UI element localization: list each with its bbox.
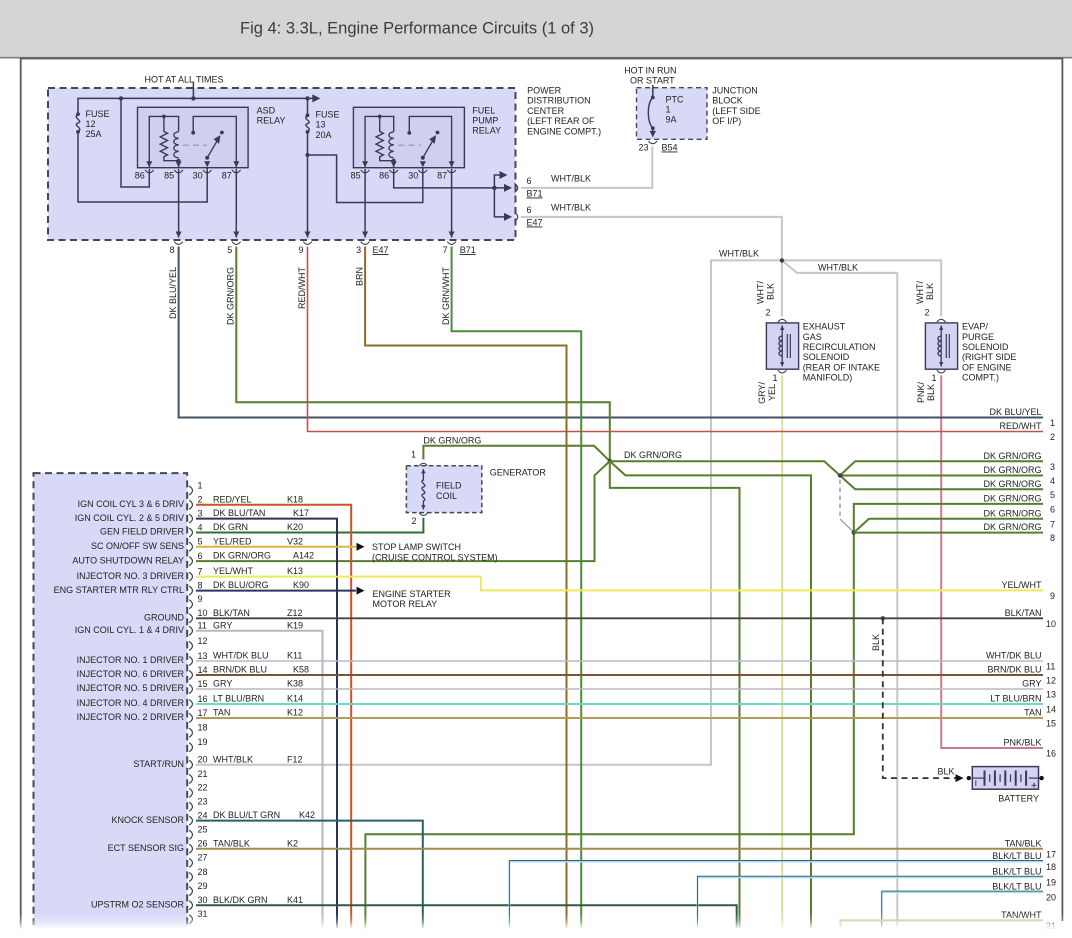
svg-text:30: 30	[193, 171, 203, 181]
node junction DK GRN/ORG	[608, 459, 612, 463]
svg-text:DK GRN: DK GRN	[213, 522, 248, 532]
svg-text:PURGE: PURGE	[962, 332, 994, 342]
connector PCM pin 22 connector	[189, 788, 192, 797]
svg-text:ASD: ASD	[257, 105, 276, 115]
wire hot bus	[78, 98, 314, 114]
PCM connector box	[34, 473, 188, 938]
connector PCM pin 5 connector	[189, 542, 192, 551]
node fuse13 top	[306, 114, 310, 118]
wire hot-at-all-times feed	[192, 82, 194, 99]
wire FP pin86 to PDC outputs	[394, 169, 508, 188]
connector ASD pin 85	[174, 170, 183, 173]
svg-text:30: 30	[408, 171, 418, 181]
wire hot in run feed	[652, 85, 654, 97]
svg-text:YEL/WHT: YEL/WHT	[213, 566, 254, 576]
svg-text:E47: E47	[373, 245, 389, 255]
svg-text:17: 17	[198, 708, 208, 718]
svg-text:DK GRN/ORG: DK GRN/ORG	[423, 436, 481, 446]
svg-text:OR START: OR START	[630, 76, 675, 86]
svg-text:RELAY: RELAY	[472, 126, 501, 136]
svg-text:12: 12	[198, 636, 208, 646]
connector PCM pin 27 connector	[189, 858, 192, 867]
EGR solenoid coil symbol	[781, 326, 783, 367]
connector PCM pin 9 connector	[189, 600, 192, 609]
svg-text:INJECTOR NO. 3 DRIVER: INJECTOR NO. 3 DRIVER	[77, 571, 185, 581]
svg-text:16: 16	[1046, 749, 1056, 759]
svg-text:BLK: BLK	[926, 384, 936, 401]
svg-text:3: 3	[198, 508, 203, 518]
svg-text:DK GRN/ORG: DK GRN/ORG	[983, 508, 1041, 518]
svg-text:12: 12	[86, 119, 96, 129]
svg-text:DK BLU/TAN: DK BLU/TAN	[213, 508, 265, 518]
svg-text:(LEFT SIDE: (LEFT SIDE	[712, 106, 760, 116]
svg-text:TAN: TAN	[213, 708, 230, 718]
wire DK GRN/ORG to PCM pin6 (A142)	[196, 461, 610, 561]
svg-text:SOLENOID: SOLENOID	[962, 342, 1009, 352]
EVAP coil arrow down	[939, 362, 943, 366]
connector PCM pin 18 connector	[189, 728, 192, 737]
wire BRN/DK BLU K58 (pin14,row12)	[196, 674, 1043, 676]
wire DK GRN/ORG row4 left	[610, 461, 811, 928]
svg-text:DK GRN/ORG: DK GRN/ORG	[983, 465, 1041, 475]
svg-text:LT BLU/BRN: LT BLU/BRN	[213, 694, 264, 704]
node fuse12 bottom	[76, 130, 80, 134]
connector PCM pin 21 connector	[189, 775, 192, 784]
connector PDC exit 9	[303, 242, 312, 245]
connector PCM pin 19 connector	[189, 743, 192, 752]
svg-text:7: 7	[1050, 519, 1055, 529]
svg-text:ENGINE STARTER: ENGINE STARTER	[373, 589, 452, 599]
ASD relay box	[138, 107, 249, 167]
wire ASD pin85 internal	[178, 161, 180, 168]
svg-text:K17: K17	[293, 508, 309, 518]
svg-text:GAS: GAS	[803, 332, 822, 342]
wire BLK/DK GRN K41 (pin30)	[196, 905, 737, 928]
svg-text:2: 2	[411, 516, 416, 526]
wire WHT/BLK diagonal branch	[782, 260, 897, 928]
connector PDC exit 8	[174, 242, 183, 245]
svg-text:K14: K14	[287, 694, 303, 704]
svg-text:15: 15	[198, 679, 208, 689]
FP coil resistance (zigzag)	[376, 116, 394, 160]
svg-text:OF ENGINE: OF ENGINE	[962, 362, 1012, 372]
svg-text:11: 11	[198, 621, 207, 631]
svg-text:3: 3	[1050, 462, 1055, 472]
EVAP solenoid coil symbol	[940, 326, 942, 367]
svg-text:RED/WHT: RED/WHT	[297, 267, 307, 309]
ASD coil resistance (zigzag)	[160, 116, 178, 160]
svg-text:WHT/BLK: WHT/BLK	[213, 754, 253, 764]
wire fuse12 to ASD pin30	[78, 132, 207, 202]
wire WHT/BLK to EVAP pin 2	[782, 260, 941, 316]
ASD coil winding arcs	[174, 132, 179, 158]
wire ASD pin87 to exit 5	[235, 169, 237, 238]
node fuse13 bottom	[306, 130, 310, 134]
svg-text:Fig 4: 3.3L, Engine Performanc: Fig 4: 3.3L, Engine Performance Circuits…	[240, 20, 594, 38]
EVAP coil arrow up	[939, 326, 943, 330]
wire bus to ASD pin86	[121, 98, 149, 187]
svg-text:14: 14	[198, 665, 208, 675]
svg-text:DK BLU/ORG: DK BLU/ORG	[213, 580, 269, 590]
wire DK GRN/ORG row5 right	[840, 476, 1043, 490]
connector PCM pin 3 connector	[189, 514, 192, 523]
svg-text:9: 9	[198, 594, 203, 604]
svg-text:DK BLU/LT GRN: DK BLU/LT GRN	[213, 810, 280, 820]
svg-text:F12: F12	[287, 754, 303, 764]
PDC exit 3 arrow	[362, 232, 368, 238]
svg-text:15: 15	[1046, 719, 1056, 729]
svg-text:29: 29	[198, 881, 208, 891]
svg-text:JUNCTION: JUNCTION	[712, 86, 758, 96]
svg-text:IGN COIL CYL. 2 & 5 DRIV: IGN COIL CYL. 2 & 5 DRIV	[75, 513, 184, 523]
svg-text:COMPT.): COMPT.)	[962, 373, 999, 383]
svg-text:2: 2	[765, 308, 770, 318]
svg-text:87: 87	[222, 171, 232, 181]
connector EGR pin 2	[778, 319, 787, 322]
connector PCM pin 28 connector	[189, 873, 192, 882]
twisted pair dashed link node1-node2	[839, 480, 841, 520]
svg-text:13: 13	[198, 651, 208, 661]
node fan node 2	[852, 530, 856, 534]
connector PDC exit 7	[447, 242, 456, 245]
svg-text:1: 1	[666, 105, 671, 115]
svg-text:1: 1	[772, 373, 777, 383]
svg-text:IGN COIL CYL. 1 & 4 DRIV: IGN COIL CYL. 1 & 4 DRIV	[75, 625, 184, 635]
connector ASD pin 87	[232, 170, 241, 173]
svg-text:PNK/BLK: PNK/BLK	[1003, 738, 1041, 748]
wire branch to E47 output	[494, 188, 508, 217]
svg-text:DK GRN/ORG: DK GRN/ORG	[226, 267, 236, 325]
svg-text:K13: K13	[287, 566, 303, 576]
node bus junction B	[191, 96, 195, 100]
svg-text:K42: K42	[299, 810, 315, 820]
wire fuse13 feed from bus	[307, 98, 309, 115]
wire DK GRN/ORG row8	[854, 532, 1043, 534]
svg-text:K11: K11	[287, 651, 302, 661]
node ASD fixed contact	[191, 131, 195, 135]
arrow engine starter motor relay	[357, 587, 365, 595]
svg-text:DK GRN/ORG: DK GRN/ORG	[624, 450, 682, 460]
svg-text:BLK/LT BLU: BLK/LT BLU	[992, 851, 1041, 861]
wire ASD coil top wire	[149, 116, 178, 167]
connector PTC exit connector	[649, 141, 658, 144]
svg-text:PNK/: PNK/	[916, 382, 926, 404]
svg-text:FUEL: FUEL	[472, 105, 495, 115]
svg-text:7: 7	[443, 245, 448, 255]
wire GRY K19 (pin11)	[196, 631, 323, 928]
svg-text:K20: K20	[287, 522, 303, 532]
svg-text:19: 19	[198, 737, 208, 747]
connector PCM pin 4 connector	[189, 528, 192, 537]
svg-text:GRY/: GRY/	[757, 382, 767, 404]
svg-text:POWER: POWER	[527, 86, 562, 96]
junction block box	[637, 88, 708, 140]
connector ASD pin 30	[203, 170, 212, 173]
connector PDC E47 connector	[515, 212, 518, 221]
PDC exit 8 arrow	[176, 232, 182, 238]
ASD switch arm	[207, 141, 217, 158]
arrow into B71	[504, 184, 512, 192]
svg-text:28: 28	[198, 867, 208, 877]
node FP switch pivot (pin30)	[421, 156, 425, 160]
svg-text:IGN COIL CYL 3 & 6 DRIV: IGN COIL CYL 3 & 6 DRIV	[78, 499, 184, 509]
svg-text:(LEFT REAR OF: (LEFT REAR OF	[527, 116, 595, 126]
wire BLK/LT BLU row18 (light core)	[509, 862, 1043, 929]
svg-text:WHT/BLK: WHT/BLK	[551, 203, 591, 213]
wire PNK/BLK from EVAP pin1 (row16)	[941, 376, 1043, 749]
svg-text:TAN/BLK: TAN/BLK	[1005, 838, 1042, 848]
svg-text:10: 10	[198, 608, 208, 618]
node FP coil bottom node	[392, 159, 396, 163]
svg-text:24: 24	[198, 810, 208, 820]
connector PCM pin 8 connector	[189, 586, 192, 595]
svg-text:BLOCK: BLOCK	[712, 96, 743, 106]
wire ASD pin87 internal	[193, 116, 236, 167]
wire ASD pin85 to exit 8	[178, 169, 180, 238]
svg-text:8: 8	[198, 580, 203, 590]
svg-text:GENERATOR: GENERATOR	[490, 468, 547, 478]
svg-text:HOT AT ALL TIMES: HOT AT ALL TIMES	[145, 75, 224, 85]
EGR coil arrow up	[780, 326, 784, 330]
connector PCM pin 31 connector	[189, 915, 192, 924]
battery B1	[973, 771, 1038, 788]
connector PCM pin 25 connector	[189, 830, 192, 839]
svg-text:9: 9	[1050, 591, 1055, 601]
generator field coil box	[406, 466, 481, 513]
ASD pin 85 arrow	[176, 161, 182, 167]
svg-text:MOTOR RELAY: MOTOR RELAY	[373, 599, 438, 609]
wire BLK/TAN Z12 (pin10,row10)	[196, 617, 1043, 619]
node battery negative terminal	[967, 776, 971, 780]
fuel pump relay box	[353, 107, 464, 167]
svg-text:B54: B54	[662, 143, 678, 153]
node PTC top	[651, 96, 655, 100]
wire TAN K12 (pin17,row15)	[196, 717, 1043, 719]
svg-text:WHT/DK BLU: WHT/DK BLU	[213, 651, 269, 661]
wire BRN from exit 3	[365, 247, 566, 929]
node ASD switch arm contact	[220, 131, 224, 135]
node fuse12 top	[76, 112, 80, 116]
svg-text:E47: E47	[527, 218, 543, 228]
svg-text:RECIRCULATION: RECIRCULATION	[803, 342, 876, 352]
svg-text:SOLENOID: SOLENOID	[803, 352, 850, 362]
connector PCM pin 7 connector	[189, 572, 192, 581]
wire PTC lower stub	[652, 128, 654, 136]
svg-text:25: 25	[198, 825, 208, 835]
svg-text:2: 2	[924, 308, 929, 318]
PDC exit 9 arrow	[305, 232, 311, 238]
node ASD coil bottom node	[177, 159, 181, 163]
wire FP pin87 to exit 7	[451, 169, 453, 238]
svg-text:25A: 25A	[86, 129, 102, 139]
wire BLK ground lead (dashed)	[883, 618, 956, 778]
svg-text:6: 6	[527, 176, 532, 186]
svg-text:WHT/BLK: WHT/BLK	[818, 262, 858, 272]
connector PCM pin 6 connector	[189, 557, 192, 566]
svg-text:START/RUN: START/RUN	[133, 759, 184, 769]
svg-text:17: 17	[1046, 849, 1056, 859]
svg-text:7: 7	[198, 566, 203, 576]
svg-text:INJECTOR NO. 1 DRIVER: INJECTOR NO. 1 DRIVER	[77, 655, 185, 665]
svg-text:INJECTOR NO. 5 DRIVER: INJECTOR NO. 5 DRIVER	[77, 683, 185, 693]
connector PCM pin 16 connector	[189, 700, 192, 709]
svg-text:87: 87	[437, 171, 447, 181]
wire BLK/LT BLU row18 (dark edge)	[509, 861, 1043, 928]
field coil arrow down	[421, 505, 425, 509]
wire DK BLU/LT GRN K42 (pin24)	[196, 821, 423, 928]
node fan node 1	[838, 473, 842, 477]
bottom fade	[0, 913, 1072, 938]
connector PDC exit 3	[361, 242, 370, 245]
svg-text:13: 13	[316, 120, 326, 130]
connector PCM pin 20 connector	[189, 760, 192, 769]
svg-text:DK BLU/YEL: DK BLU/YEL	[168, 267, 178, 319]
FP switch arm	[423, 141, 433, 158]
svg-text:V32: V32	[287, 536, 303, 546]
wire DK GRN/ORG generator pin1	[423, 446, 609, 461]
svg-text:BRN/DK BLU: BRN/DK BLU	[213, 665, 267, 675]
fuse F12 (FUSE 12 25A)	[76, 114, 79, 132]
svg-text:YEL: YEL	[767, 384, 777, 401]
node FP switch arm contact	[436, 131, 440, 135]
svg-text:DK GRN/ORG: DK GRN/ORG	[983, 494, 1041, 504]
svg-text:KNOCK SENSOR: KNOCK SENSOR	[111, 815, 184, 825]
connector PCM pin 1 connector	[189, 486, 192, 495]
wire FP pin87 internal	[409, 116, 451, 167]
wire BLK/LT BLU row19 (light core)	[698, 877, 1044, 928]
svg-text:ECT SENSOR SIG: ECT SENSOR SIG	[108, 843, 184, 853]
svg-text:MANIFOLD): MANIFOLD)	[803, 373, 853, 383]
svg-text:11: 11	[1046, 662, 1055, 672]
svg-text:BLK/LT BLU: BLK/LT BLU	[992, 881, 1041, 891]
svg-text:K41: K41	[287, 895, 303, 905]
svg-text:9A: 9A	[666, 115, 677, 125]
wire DK GRN/ORG row3 right	[840, 461, 1043, 475]
wire RED/YEL K18 (pin2)	[196, 505, 351, 928]
svg-text:16: 16	[198, 694, 208, 704]
svg-text:DK BLU/YEL: DK BLU/YEL	[989, 407, 1041, 417]
svg-text:DISTRIBUTION: DISTRIBUTION	[527, 96, 591, 106]
svg-text:FUSE: FUSE	[86, 109, 110, 119]
FP pin 87 arrow	[449, 161, 455, 167]
battery positive stub	[1039, 777, 1042, 779]
svg-text:WHT/DK BLU: WHT/DK BLU	[986, 651, 1042, 661]
svg-text:12: 12	[1046, 676, 1056, 686]
svg-text:WHT/BLK: WHT/BLK	[719, 248, 759, 258]
wire BLK/LT BLU row19 (dark edge)	[698, 876, 1044, 927]
svg-text:26: 26	[198, 839, 208, 849]
svg-text:1: 1	[411, 450, 416, 460]
battery box	[972, 767, 1038, 790]
svg-text:5: 5	[1050, 490, 1055, 500]
connector PCM pin 23 connector	[189, 802, 192, 811]
svg-text:BLK/TAN: BLK/TAN	[1005, 608, 1042, 618]
FP pin 86 arrow	[391, 161, 397, 167]
svg-text:K18: K18	[287, 494, 303, 504]
connector EVAP pin 2	[937, 319, 946, 322]
svg-text:13: 13	[1046, 690, 1056, 700]
svg-text:BLK: BLK	[871, 634, 881, 651]
svg-text:GRY: GRY	[213, 620, 232, 630]
svg-text:WHT/: WHT/	[756, 281, 766, 304]
svg-text:86: 86	[379, 171, 389, 181]
svg-text:14: 14	[1046, 705, 1056, 715]
svg-text:Z12: Z12	[287, 608, 303, 618]
svg-text:22: 22	[198, 783, 208, 793]
FP pin 85 arrow	[362, 161, 368, 167]
ASD pin 30 arrow	[204, 161, 210, 167]
svg-text:LT BLU/BRN: LT BLU/BRN	[990, 694, 1041, 704]
svg-text:SC ON/OFF SW SENS: SC ON/OFF SW SENS	[91, 541, 184, 551]
wire BLK/LT BLU row20 (light core)	[882, 892, 1043, 928]
svg-text:B71: B71	[460, 245, 476, 255]
svg-text:K90: K90	[293, 580, 309, 590]
FP switch arm arrowhead	[429, 135, 436, 144]
wire DK BLU/TAN K17 (pin3)	[196, 519, 337, 928]
svg-text:BLK: BLK	[938, 767, 955, 777]
svg-text:BATTERY: BATTERY	[998, 793, 1039, 803]
svg-text:6: 6	[527, 205, 532, 215]
node FP fixed contact	[407, 131, 411, 135]
svg-text:23: 23	[638, 143, 648, 153]
svg-text:85: 85	[351, 171, 361, 181]
connector ASD pin 86	[145, 170, 154, 173]
svg-text:K19: K19	[287, 620, 303, 630]
svg-text:STOP LAMP SWITCH: STOP LAMP SWITCH	[372, 542, 461, 552]
wire WHT/DK BLU K11 (pin13,row11)	[196, 660, 1043, 662]
svg-text:1: 1	[931, 373, 936, 383]
svg-text:18: 18	[1046, 862, 1056, 872]
connector PCM pin 15 connector	[189, 685, 192, 694]
svg-text:BLK: BLK	[925, 283, 935, 300]
svg-text:INJECTOR NO. 6 DRIVER: INJECTOR NO. 6 DRIVER	[77, 669, 185, 679]
FP coil-switch dashed link	[399, 144, 422, 146]
svg-text:UPSTRM O2 SENSOR: UPSTRM O2 SENSOR	[91, 899, 185, 909]
svg-text:RED/WHT: RED/WHT	[1000, 421, 1042, 431]
svg-text:FUSE: FUSE	[316, 110, 340, 120]
node PDC output junction	[492, 186, 496, 190]
wire DK GRN/ORG row7	[854, 519, 1043, 533]
svg-text:27: 27	[198, 853, 208, 863]
svg-text:20: 20	[198, 755, 208, 765]
connector generator pin 1	[419, 463, 428, 466]
svg-text:DK GRN/ORG: DK GRN/ORG	[983, 479, 1041, 489]
connector PCM pin 2 connector	[189, 500, 192, 509]
wire DK GRN/ORG row4 right	[840, 475, 1043, 477]
svg-text:YEL/RED: YEL/RED	[213, 536, 252, 546]
connector FP pin 85	[361, 170, 370, 173]
svg-text:BLK/TAN: BLK/TAN	[213, 608, 250, 618]
wire BLK/LT BLU row20 (dark edge)	[882, 891, 1043, 927]
svg-text:5: 5	[198, 537, 203, 547]
EVAP purge solenoid box	[925, 323, 957, 369]
svg-text:INJECTOR NO. 2 DRIVER: INJECTOR NO. 2 DRIVER	[77, 712, 185, 722]
field coil arrow up	[421, 469, 425, 473]
svg-text:BLK/LT BLU: BLK/LT BLU	[992, 867, 1041, 877]
connector FP pin 86	[389, 170, 398, 173]
svg-text:4: 4	[1050, 476, 1055, 486]
svg-text:PUMP: PUMP	[472, 116, 498, 126]
svg-text:20: 20	[1046, 892, 1056, 902]
svg-text:FIELD: FIELD	[436, 481, 462, 491]
svg-text:6: 6	[1050, 505, 1055, 515]
connector PDC B71 connector	[515, 183, 518, 192]
svg-text:DK GRN/WHT: DK GRN/WHT	[441, 267, 451, 325]
ASD coil-switch dashed link	[183, 144, 207, 146]
connector PCM pin 11 connector	[189, 626, 192, 635]
svg-text:B71: B71	[527, 189, 543, 199]
connector EGR pin 1	[778, 370, 787, 373]
